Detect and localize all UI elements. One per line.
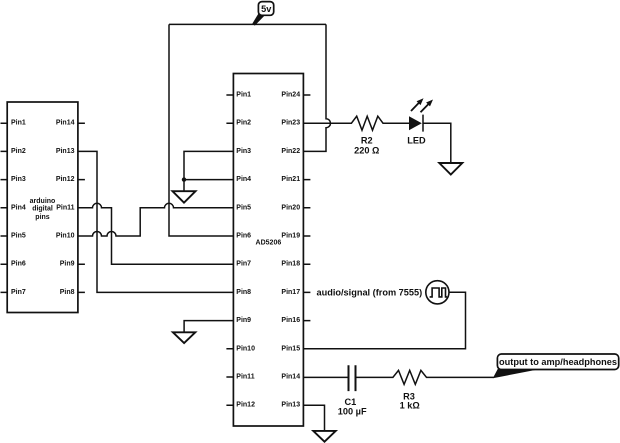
svg-text:Pin13: Pin13 xyxy=(56,148,75,155)
svg-text:LED: LED xyxy=(407,135,426,145)
svg-text:Pin23: Pin23 xyxy=(281,120,300,127)
svg-text:Pin9: Pin9 xyxy=(236,317,251,324)
svg-text:Pin7: Pin7 xyxy=(11,289,26,296)
svg-text:arduino: arduino xyxy=(30,198,56,205)
svg-text:Pin4: Pin4 xyxy=(236,176,251,183)
svg-text:Pin8: Pin8 xyxy=(236,289,251,296)
svg-text:digital: digital xyxy=(32,206,53,213)
svg-text:Pin19: Pin19 xyxy=(281,233,300,240)
svg-text:Pin24: Pin24 xyxy=(281,92,300,99)
svg-text:Pin1: Pin1 xyxy=(11,120,26,127)
svg-text:Pin3: Pin3 xyxy=(236,148,251,155)
svg-text:220 Ω: 220 Ω xyxy=(354,146,379,156)
svg-text:Pin14: Pin14 xyxy=(281,374,300,381)
svg-text:Pin5: Pin5 xyxy=(236,204,251,211)
svg-text:Pin2: Pin2 xyxy=(236,120,251,127)
svg-text:Pin3: Pin3 xyxy=(11,176,26,183)
svg-text:Pin8: Pin8 xyxy=(60,289,75,296)
svg-text:Pin6: Pin6 xyxy=(236,233,251,240)
svg-text:pins: pins xyxy=(35,214,49,221)
svg-text:Pin18: Pin18 xyxy=(281,261,300,268)
svg-text:output to amp/headphones: output to amp/headphones xyxy=(499,357,617,367)
svg-text:Pin17: Pin17 xyxy=(281,289,300,296)
svg-text:audio/signal (from 7555): audio/signal (from 7555) xyxy=(317,287,423,297)
svg-text:Pin15: Pin15 xyxy=(281,345,300,352)
svg-text:R2: R2 xyxy=(361,135,373,145)
svg-text:Pin20: Pin20 xyxy=(281,204,300,211)
svg-text:1 kΩ: 1 kΩ xyxy=(400,400,420,410)
svg-text:Pin4: Pin4 xyxy=(11,204,26,211)
svg-text:Pin13: Pin13 xyxy=(281,402,300,409)
svg-text:Pin1: Pin1 xyxy=(236,92,251,99)
svg-text:Pin12: Pin12 xyxy=(236,402,255,409)
svg-text:Pin22: Pin22 xyxy=(281,148,300,155)
svg-text:Pin2: Pin2 xyxy=(11,148,26,155)
svg-text:Pin11: Pin11 xyxy=(236,374,254,381)
svg-text:Pin11: Pin11 xyxy=(56,204,74,211)
svg-text:100 µF: 100 µF xyxy=(338,407,367,417)
svg-text:Pin21: Pin21 xyxy=(281,176,300,183)
svg-text:Pin6: Pin6 xyxy=(11,261,26,268)
svg-text:Pin16: Pin16 xyxy=(281,317,300,324)
svg-text:5v: 5v xyxy=(261,4,272,14)
svg-text:Pin14: Pin14 xyxy=(56,120,75,127)
svg-text:AD5206: AD5206 xyxy=(256,240,282,247)
svg-text:Pin9: Pin9 xyxy=(60,261,75,268)
svg-text:Pin5: Pin5 xyxy=(11,233,26,240)
svg-text:Pin10: Pin10 xyxy=(236,345,255,352)
svg-text:Pin7: Pin7 xyxy=(236,261,251,268)
svg-text:Pin10: Pin10 xyxy=(56,233,75,240)
svg-text:Pin12: Pin12 xyxy=(56,176,75,183)
